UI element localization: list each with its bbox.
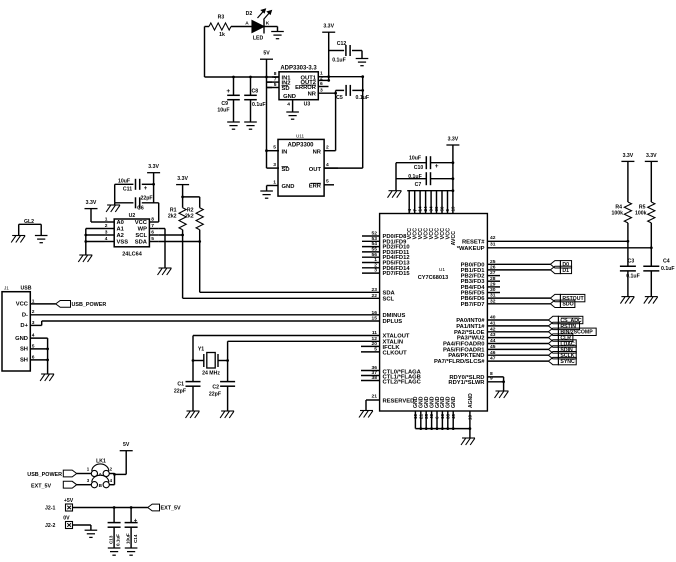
wire VCC pin stub 2 bbox=[414, 191, 416, 214]
resistor R2 2k2 bbox=[183, 196, 200, 198]
ground at C9 bbox=[227, 121, 240, 123]
pin PB4/FD4 bbox=[487, 286, 500, 288]
ground at C13 bbox=[108, 547, 121, 549]
pin PA0/INT0# 40 bbox=[487, 319, 548, 321]
IC U2 24LC64 bbox=[114, 219, 149, 247]
wire VCC pin stub 3 bbox=[419, 191, 421, 214]
port D1 bbox=[550, 266, 560, 273]
svg-text:D+: D+ bbox=[20, 323, 28, 329]
pin PA1/INT1# 41 bbox=[487, 325, 548, 327]
pin CLKOUT 5 bbox=[361, 351, 380, 353]
svg-text:28: 28 bbox=[490, 276, 496, 282]
svg-text:54: 54 bbox=[372, 241, 378, 247]
wire SDA net bbox=[159, 241, 200, 243]
svg-text:J2-2: J2-2 bbox=[45, 523, 55, 529]
pin PB3/FD3 bbox=[487, 280, 500, 282]
wire OUT2 to 3.3V bbox=[327, 79, 330, 82]
op-amp U3 ADP3303-3.3 regulator bbox=[279, 72, 318, 100]
svg-text:42: 42 bbox=[490, 326, 496, 332]
resistor R5 100k bbox=[650, 161, 652, 202]
svg-text:C13: C13 bbox=[109, 535, 114, 544]
pin PD1/FD9 bbox=[362, 240, 380, 242]
pin PA4/FIFOADR0 44 bbox=[487, 343, 548, 345]
port RSTOUT bbox=[550, 294, 560, 301]
svg-text:100k: 100k bbox=[611, 211, 623, 217]
svg-text:4: 4 bbox=[105, 236, 108, 242]
svg-text:13: 13 bbox=[468, 414, 473, 420]
op-amp U11 ADP3300 regulator bbox=[278, 139, 324, 196]
svg-text:3.3V: 3.3V bbox=[646, 153, 657, 159]
wire 5V down to U11 bbox=[266, 59, 268, 168]
svg-text:RDY1/*SLWR: RDY1/*SLWR bbox=[448, 380, 485, 386]
wire VCC bus bbox=[407, 190, 453, 192]
svg-text:0.1uF: 0.1uF bbox=[252, 102, 266, 108]
svg-text:C7: C7 bbox=[415, 182, 422, 188]
chassis ground RDY bbox=[496, 390, 509, 392]
svg-text:U11: U11 bbox=[296, 134, 305, 139]
svg-text:C12: C12 bbox=[337, 41, 347, 47]
capacitor C8 0.1uF bbox=[250, 77, 252, 95]
wire J1 GND SH SH bbox=[30, 337, 47, 339]
svg-text:C8: C8 bbox=[252, 89, 259, 95]
svg-text:R5: R5 bbox=[639, 204, 646, 210]
svg-text:C10: C10 bbox=[414, 165, 424, 171]
svg-text:CTL2/*FLAGC: CTL2/*FLAGC bbox=[383, 380, 422, 386]
pin PB1/FD1 bbox=[487, 269, 550, 271]
svg-text:26: 26 bbox=[490, 265, 496, 271]
pin PD7/FD15 bbox=[362, 272, 380, 274]
svg-text:39: 39 bbox=[434, 206, 439, 212]
wire WP to ground bbox=[159, 228, 165, 230]
port SDO bbox=[550, 300, 560, 307]
wire J2-2 to ground bbox=[73, 524, 91, 526]
wire input node 5V row bbox=[205, 76, 280, 78]
IC U1 CY7C68013 bbox=[380, 214, 488, 412]
wire VCC pin stub 1 bbox=[408, 191, 410, 214]
wire U11 GND to ground bbox=[267, 185, 278, 187]
svg-text:3: 3 bbox=[105, 230, 108, 236]
chassis ground RESERVED bbox=[360, 410, 373, 412]
svg-text:3.3V: 3.3V bbox=[448, 137, 459, 143]
svg-text:SH: SH bbox=[20, 347, 28, 353]
pin CTL1/*FLAGB bbox=[361, 375, 380, 377]
svg-text:WP: WP bbox=[138, 227, 147, 233]
svg-text:K: K bbox=[266, 21, 270, 27]
svg-text:3.3V: 3.3V bbox=[623, 153, 634, 159]
wire 3.3V to OUT1 bbox=[328, 32, 330, 80]
capacitor C2 22pF bbox=[220, 381, 235, 383]
capacitor C5 0.1uF bbox=[336, 89, 345, 91]
svg-text:NR: NR bbox=[313, 150, 322, 156]
svg-text:8: 8 bbox=[151, 217, 154, 223]
pin PA3/*WU2 43 bbox=[487, 337, 548, 339]
pin PD0/FD8 bbox=[362, 235, 380, 237]
chassis ground C11 bbox=[107, 204, 120, 206]
svg-text:C4: C4 bbox=[663, 259, 670, 265]
svg-text:3.3V: 3.3V bbox=[148, 164, 159, 170]
svg-text:C9: C9 bbox=[221, 101, 228, 107]
capacitor C14 10uF bbox=[130, 508, 132, 523]
svg-text:SCL: SCL bbox=[383, 296, 395, 302]
svg-text:16: 16 bbox=[372, 310, 378, 316]
svg-text:DMINUS: DMINUS bbox=[383, 313, 406, 319]
svg-text:0V: 0V bbox=[63, 515, 70, 521]
svg-text:RESET#: RESET# bbox=[462, 239, 485, 245]
resistor R3 1k bbox=[205, 26, 210, 28]
svg-text:USB_POWER: USB_POWER bbox=[72, 302, 107, 308]
svg-text:9: 9 bbox=[490, 376, 493, 382]
svg-text:USB_POWER: USB_POWER bbox=[27, 472, 62, 478]
wire RESERVED to ground bbox=[365, 400, 367, 411]
chassis ground C2 bbox=[221, 410, 234, 412]
port EXT_5V at J2 bbox=[148, 504, 160, 511]
wire VCC pin stub 4 bbox=[425, 191, 427, 214]
svg-text:D1: D1 bbox=[562, 268, 569, 274]
svg-text:C11: C11 bbox=[123, 187, 132, 193]
svg-text:31: 31 bbox=[490, 293, 496, 299]
wire C6 node to VCC pin bbox=[158, 203, 160, 222]
pin PA7/*FLRD/SLCS# 47 bbox=[487, 360, 548, 362]
chassis ground AGND bbox=[462, 437, 475, 439]
svg-text:ERROR: ERROR bbox=[295, 85, 317, 91]
svg-text:22pF: 22pF bbox=[174, 389, 186, 395]
pin PB5/FD5 bbox=[487, 292, 500, 294]
svg-text:5: 5 bbox=[151, 236, 154, 242]
svg-text:3: 3 bbox=[273, 162, 276, 168]
svg-text:6: 6 bbox=[151, 230, 154, 236]
wire SCL net bbox=[159, 234, 183, 236]
svg-text:GND: GND bbox=[282, 184, 295, 190]
svg-text:21: 21 bbox=[418, 413, 423, 419]
svg-text:43: 43 bbox=[490, 332, 496, 338]
svg-text:55: 55 bbox=[372, 247, 378, 253]
svg-text:GND: GND bbox=[15, 336, 28, 342]
svg-text:40: 40 bbox=[490, 315, 496, 321]
svg-text:5: 5 bbox=[273, 145, 276, 151]
svg-text:2: 2 bbox=[326, 145, 329, 151]
pin *WAKEUP 31 bbox=[487, 247, 651, 249]
pin RDY1/*SLWR 9 bbox=[487, 381, 503, 383]
svg-text:IN: IN bbox=[282, 150, 288, 156]
pin RDY0/*SLRD 8 bbox=[487, 376, 503, 378]
svg-text:52: 52 bbox=[372, 231, 378, 237]
chassis ground GL2 left bbox=[12, 235, 25, 237]
svg-text:1: 1 bbox=[374, 257, 377, 263]
svg-text:OUT: OUT bbox=[309, 167, 322, 173]
svg-text:A: A bbox=[245, 21, 249, 27]
svg-text:24: 24 bbox=[423, 206, 428, 212]
wire VCC pin stub 5 bbox=[430, 191, 432, 214]
svg-text:J1: J1 bbox=[4, 286, 9, 291]
pin PB0/FD0 bbox=[487, 263, 550, 265]
resistor R1 2k2 bbox=[182, 185, 184, 208]
svg-text:44: 44 bbox=[490, 338, 496, 344]
svg-text:21: 21 bbox=[372, 394, 378, 400]
pin PD3/FD11 bbox=[362, 251, 380, 253]
svg-text:EXT_5V: EXT_5V bbox=[31, 483, 51, 489]
svg-text:ADP3303-3.3: ADP3303-3.3 bbox=[280, 66, 317, 72]
svg-text:D2: D2 bbox=[246, 11, 253, 17]
svg-text:25: 25 bbox=[490, 259, 496, 265]
svg-text:C5: C5 bbox=[336, 95, 343, 101]
wire OUT1 to 3.3V node bbox=[318, 76, 362, 78]
svg-text:SYNC: SYNC bbox=[560, 359, 575, 365]
ground at C14 bbox=[125, 547, 138, 549]
svg-text:24LC64: 24LC64 bbox=[122, 252, 143, 258]
pin CTL0/*FLAGA bbox=[361, 370, 380, 372]
svg-text:A0: A0 bbox=[117, 220, 124, 226]
svg-text:10uF: 10uF bbox=[126, 533, 131, 544]
pin RESERVED 21 bbox=[366, 399, 380, 401]
svg-text:NR: NR bbox=[308, 92, 317, 98]
svg-text:GND: GND bbox=[283, 94, 296, 100]
wire J2-1 to EXT_5V bbox=[73, 507, 148, 509]
svg-text:10uF: 10uF bbox=[409, 156, 421, 162]
svg-text:5: 5 bbox=[374, 347, 377, 353]
chassis ground WP bbox=[159, 267, 172, 269]
svg-text:C2: C2 bbox=[212, 385, 219, 391]
pin CTL2/*FLAGC bbox=[361, 380, 380, 382]
svg-text:42: 42 bbox=[490, 235, 496, 241]
svg-text:+: + bbox=[134, 519, 138, 525]
wire GND bus bbox=[415, 428, 470, 430]
port LDAC bbox=[548, 340, 558, 347]
svg-text:EXT_5V: EXT_5V bbox=[161, 506, 181, 512]
wire R4 to RESET net bbox=[627, 223, 629, 266]
svg-text:29: 29 bbox=[490, 282, 496, 288]
pin IFCLK 20 bbox=[361, 345, 380, 347]
svg-text:SCL: SCL bbox=[135, 233, 147, 239]
port RSTIN bbox=[548, 322, 558, 329]
ground at LED cathode bbox=[277, 27, 279, 32]
svg-text:1k: 1k bbox=[219, 32, 225, 38]
wire D- to DMINUS bbox=[30, 314, 379, 316]
svg-text:3: 3 bbox=[374, 268, 377, 274]
svg-text:C3: C3 bbox=[628, 259, 635, 265]
svg-text:3: 3 bbox=[320, 88, 323, 94]
pin PD6/FD14 bbox=[362, 267, 380, 269]
svg-text:PB7/FD7: PB7/FD7 bbox=[461, 302, 485, 308]
svg-text:+5V: +5V bbox=[64, 498, 74, 504]
svg-text:U1: U1 bbox=[439, 267, 445, 273]
svg-text:R4: R4 bbox=[615, 204, 622, 210]
svg-text:AVCC: AVCC bbox=[451, 231, 457, 246]
svg-text:32: 32 bbox=[490, 298, 496, 304]
chassis ground C4 bbox=[645, 296, 658, 298]
svg-text:7: 7 bbox=[151, 223, 154, 229]
svg-text:15: 15 bbox=[372, 316, 378, 322]
wire C11 C6 to ground bbox=[114, 184, 116, 203]
wire VCC pin stub 7 bbox=[441, 191, 443, 214]
svg-text:49: 49 bbox=[451, 413, 456, 419]
svg-text:J2-1: J2-1 bbox=[45, 506, 55, 512]
svg-text:1: 1 bbox=[273, 180, 276, 186]
svg-text:7: 7 bbox=[412, 209, 417, 212]
svg-text:53: 53 bbox=[372, 236, 378, 242]
ground at J2-2 bbox=[85, 529, 98, 531]
svg-text:4: 4 bbox=[326, 162, 329, 168]
svg-text:47: 47 bbox=[490, 356, 496, 362]
pin RESET# 42 bbox=[487, 240, 628, 242]
capacitor C13 0.1uF bbox=[113, 508, 115, 523]
pin PA6/PKTEND 46 bbox=[487, 354, 548, 356]
svg-text:10uF: 10uF bbox=[217, 107, 229, 113]
chassis ground at C10 C7 bbox=[389, 190, 402, 192]
svg-text:VSS: VSS bbox=[117, 240, 129, 246]
port SDIN bbox=[548, 346, 558, 353]
svg-text:3.3V: 3.3V bbox=[86, 200, 97, 206]
svg-text:2k2: 2k2 bbox=[185, 214, 194, 220]
svg-text:100k: 100k bbox=[635, 211, 647, 217]
wire C10 C7 to ground bbox=[395, 163, 397, 191]
svg-text:31: 31 bbox=[490, 242, 496, 248]
ground at U11 bbox=[260, 190, 273, 192]
svg-text:AGND: AGND bbox=[468, 393, 474, 408]
chassis ground C3 bbox=[621, 296, 634, 298]
svg-text:D-: D- bbox=[22, 313, 28, 319]
capacitor C9 10uF bbox=[233, 77, 235, 95]
wire A1 A2 VSS to ground bbox=[86, 228, 105, 230]
svg-text:ERR: ERR bbox=[309, 184, 322, 190]
wire 3.3V out down to U11 OUT bbox=[362, 77, 364, 168]
svg-text:5V: 5V bbox=[123, 442, 130, 448]
svg-text:SDO: SDO bbox=[562, 302, 573, 308]
svg-text:C1: C1 bbox=[177, 382, 184, 388]
chassis ground U2 left bbox=[79, 254, 92, 256]
svg-text:GND: GND bbox=[451, 396, 457, 408]
svg-text:1: 1 bbox=[105, 217, 108, 223]
svg-text:45: 45 bbox=[490, 344, 496, 350]
wire R5 to WAKEUP net bbox=[650, 223, 652, 266]
port CLR bbox=[548, 334, 558, 341]
svg-text:41: 41 bbox=[490, 321, 496, 327]
svg-text:5: 5 bbox=[326, 179, 329, 185]
svg-text:4: 4 bbox=[407, 209, 412, 212]
svg-text:46: 46 bbox=[490, 350, 496, 356]
chassis ground C1 bbox=[187, 410, 200, 412]
svg-text:+: + bbox=[226, 88, 230, 95]
svg-text:LED: LED bbox=[253, 36, 264, 42]
ground at C12 bbox=[356, 58, 369, 60]
pin PB7/FD7 bbox=[487, 303, 550, 305]
svg-text:+: + bbox=[144, 186, 148, 192]
svg-text:5V: 5V bbox=[263, 51, 270, 57]
earth ground GL2 right bbox=[35, 235, 48, 237]
svg-text:3.3V: 3.3V bbox=[177, 176, 188, 182]
port CS_ADC bbox=[548, 316, 558, 323]
svg-text:U3: U3 bbox=[304, 102, 311, 108]
port BIN/2SCOMP bbox=[548, 328, 558, 335]
wire D+ to DPLUS bbox=[30, 324, 41, 326]
svg-text:24 MHz: 24 MHz bbox=[202, 371, 220, 377]
wire 5V to LK1 bbox=[125, 451, 127, 475]
svg-text:PA7/*FLRD/SLCS#: PA7/*FLRD/SLCS# bbox=[434, 359, 485, 365]
pin PA2/*SLOE 42 bbox=[487, 331, 548, 333]
svg-text:35: 35 bbox=[424, 413, 429, 419]
wire XTALIN bbox=[228, 340, 380, 342]
wire AGND down bbox=[469, 429, 471, 438]
ground at C8 bbox=[244, 121, 257, 123]
pin AGND 13 bbox=[469, 411, 471, 429]
wire AVCC vertical bbox=[452, 145, 454, 214]
svg-text:C14: C14 bbox=[133, 534, 138, 543]
svg-text:DPLUS: DPLUS bbox=[383, 319, 403, 325]
svg-text:+: + bbox=[435, 163, 439, 170]
ground at U3 GND bbox=[286, 111, 299, 113]
svg-text:0.1uF: 0.1uF bbox=[332, 58, 346, 64]
svg-text:6: 6 bbox=[320, 81, 323, 87]
wire VCC to USB_POWER tag bbox=[30, 303, 55, 305]
svg-text:8: 8 bbox=[274, 71, 277, 77]
svg-text:5: 5 bbox=[274, 82, 277, 88]
svg-text:27: 27 bbox=[490, 270, 496, 276]
svg-text:VCC: VCC bbox=[135, 220, 148, 226]
pin PD2/FD10 bbox=[362, 246, 380, 248]
pin PD5/FD13 bbox=[362, 262, 380, 264]
pin GND stubs bottom bbox=[414, 411, 416, 429]
pin PB2/FD2 bbox=[487, 275, 500, 277]
svg-text:38: 38 bbox=[372, 375, 378, 381]
svg-text:56: 56 bbox=[372, 252, 378, 258]
svg-text:14: 14 bbox=[418, 206, 423, 212]
pin PA5/FIFOADR1 45 bbox=[487, 348, 548, 350]
port D0 bbox=[550, 261, 560, 268]
svg-text:3.3V: 3.3V bbox=[323, 24, 334, 30]
svg-text:0.1uF: 0.1uF bbox=[661, 266, 675, 272]
svg-text:13: 13 bbox=[440, 413, 445, 419]
port SCLK bbox=[548, 352, 558, 359]
svg-text:SD: SD bbox=[282, 86, 290, 92]
svg-text:30: 30 bbox=[490, 287, 496, 293]
resistor R4 100k bbox=[627, 161, 629, 202]
svg-text:CLKOUT: CLKOUT bbox=[383, 350, 408, 356]
svg-text:10: 10 bbox=[413, 413, 418, 419]
svg-text:R3: R3 bbox=[218, 15, 225, 21]
port SYNC bbox=[548, 357, 558, 364]
svg-text:ADP3300: ADP3300 bbox=[287, 143, 314, 149]
svg-text:*WAKEUP: *WAKEUP bbox=[457, 246, 485, 252]
svg-text:2: 2 bbox=[374, 262, 377, 268]
svg-text:2: 2 bbox=[105, 223, 108, 229]
pin PD4/FD12 bbox=[362, 256, 380, 258]
capacitor C1 22pF bbox=[186, 381, 201, 383]
svg-text:0.1uF: 0.1uF bbox=[626, 274, 640, 280]
svg-text:6: 6 bbox=[435, 416, 440, 419]
pin PB6/FD6 bbox=[487, 297, 550, 299]
svg-text:RESERVED: RESERVED bbox=[383, 398, 415, 404]
wire NR net U3-U11 bbox=[335, 90, 337, 150]
wire VCC pin stub 6 bbox=[436, 191, 438, 214]
capacitor C12 0.1uF bbox=[329, 50, 344, 52]
svg-text:22: 22 bbox=[372, 293, 378, 299]
svg-text:PD7/FD15: PD7/FD15 bbox=[383, 271, 411, 277]
svg-text:SDA: SDA bbox=[135, 240, 148, 246]
svg-text:23: 23 bbox=[372, 287, 378, 293]
wire RDY to ground bbox=[503, 377, 505, 391]
svg-text:USB: USB bbox=[21, 286, 32, 292]
svg-text:VCC: VCC bbox=[16, 302, 29, 308]
svg-text:A1: A1 bbox=[117, 227, 125, 233]
svg-text:34: 34 bbox=[429, 206, 434, 212]
svg-text:C6: C6 bbox=[137, 206, 144, 212]
svg-text:Y1: Y1 bbox=[198, 347, 204, 353]
svg-text:22pF: 22pF bbox=[140, 196, 152, 202]
svg-text:19: 19 bbox=[451, 206, 456, 212]
svg-text:48: 48 bbox=[429, 413, 434, 419]
wire VCC pin stub 8 bbox=[447, 191, 449, 214]
svg-text:SH: SH bbox=[20, 358, 28, 364]
chassis ground J1 bbox=[41, 373, 54, 375]
